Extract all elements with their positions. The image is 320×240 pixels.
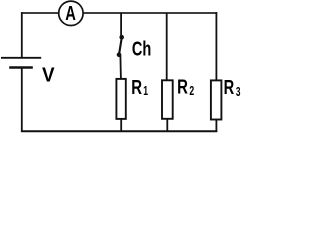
resistor R3: box: [211, 80, 222, 119]
wire: R3 to bottom bus: [215, 120, 217, 133]
switch Ch: blade: [119, 37, 122, 55]
wire: switch branch upper stub: [120, 13, 122, 37]
svg-text:V: V: [42, 64, 55, 87]
svg-text:R: R: [224, 77, 235, 99]
resistor R2: box: [162, 80, 173, 119]
wire: bottom bus: [21, 130, 217, 132]
switch Ch: bottom contact dot: [117, 53, 122, 58]
battery V: short thick plate: [9, 66, 33, 69]
svg-text:3: 3: [236, 84, 241, 99]
wire: left vertical (battery branch): [21, 12, 23, 57]
resistor R1: box: [116, 79, 125, 119]
svg-text:A: A: [65, 3, 76, 25]
wire: below battery down to bottom bus: [21, 68, 23, 132]
wire: R2 branch vertical: [166, 13, 168, 81]
svg-text:2: 2: [189, 83, 194, 98]
switch Ch: top contact dot: [119, 35, 124, 40]
svg-text:R: R: [177, 77, 188, 99]
wire: R1 to bottom bus: [120, 119, 122, 131]
ammeter U1: circle: [59, 1, 83, 25]
wire: R3 branch vertical: [215, 12, 217, 80]
svg-text:Ch: Ch: [132, 38, 151, 60]
svg-text:R: R: [131, 77, 142, 99]
svg-text:1: 1: [143, 83, 148, 98]
wire: R2 to bottom bus: [166, 119, 168, 131]
wire: switch to R1: [119, 55, 122, 79]
battery V: long plate: [1, 57, 41, 59]
wire: top bus: [21, 12, 217, 14]
